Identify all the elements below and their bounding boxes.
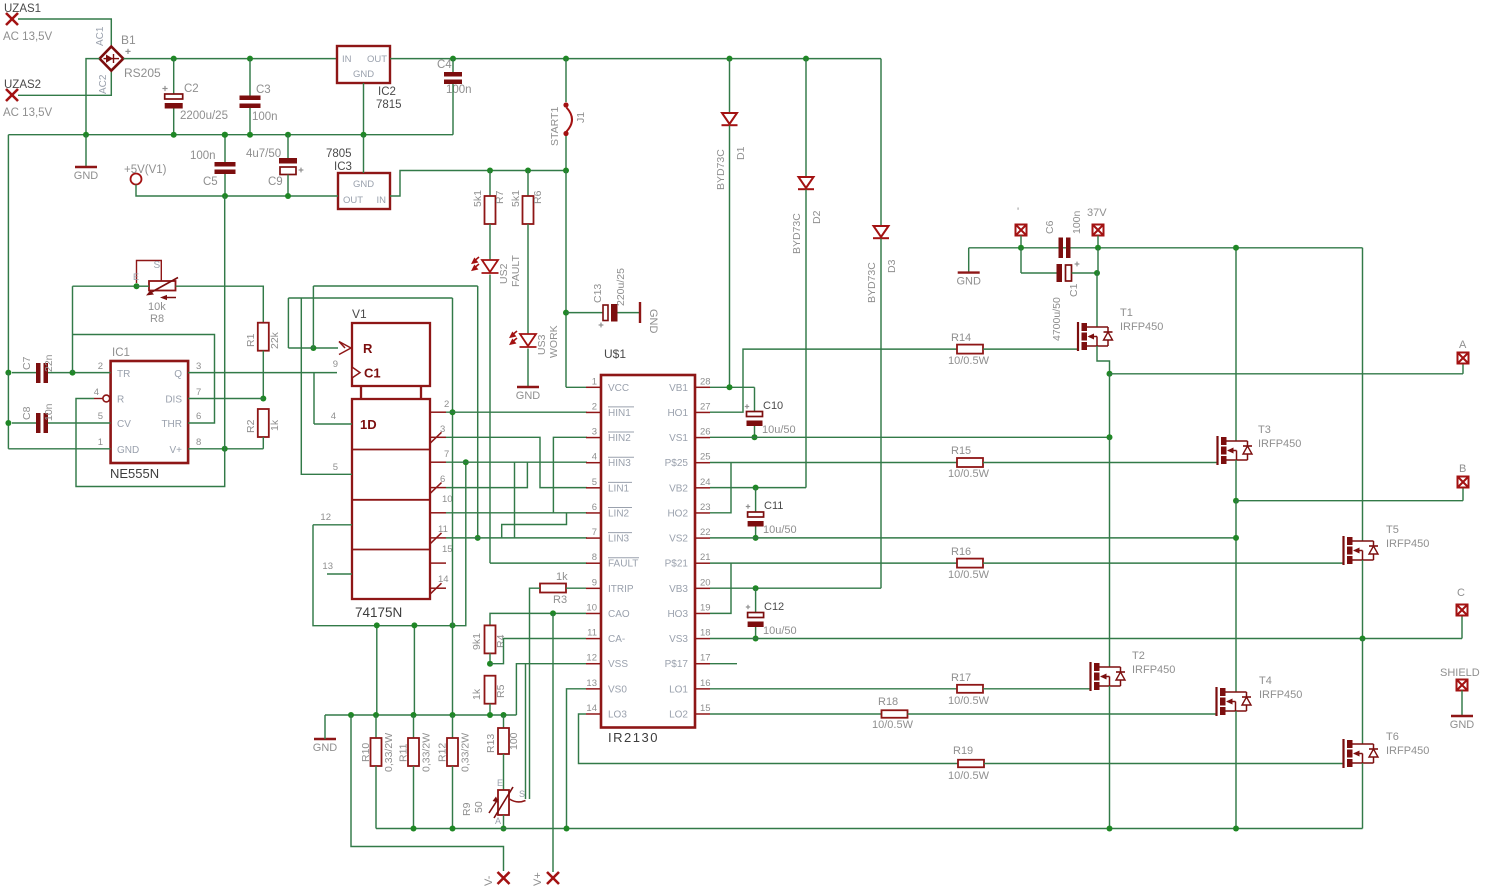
svg-text:HO2: HO2 — [667, 508, 688, 519]
svg-text:AC2: AC2 — [98, 74, 109, 94]
wire P$17 stub — [710, 663, 737, 665]
svg-text:9: 9 — [592, 577, 597, 588]
svg-text:R4: R4 — [495, 634, 507, 648]
junction R12 top — [450, 712, 456, 718]
wire C4 top lead — [452, 59, 454, 72]
wire R13 to R9 — [503, 754, 505, 790]
svg-text:GND: GND — [956, 276, 981, 288]
wire Q2 jog up — [446, 462, 527, 487]
pad C — [1457, 605, 1468, 616]
svg-text:E: E — [133, 272, 139, 282]
svg-text:4: 4 — [592, 452, 597, 463]
svg-text:CV: CV — [117, 419, 131, 430]
svg-text:VB1: VB1 — [669, 383, 688, 394]
svg-text:1k: 1k — [471, 688, 483, 700]
junction C11 on VS2 row — [753, 535, 759, 541]
wire R8 to R1 top — [176, 286, 264, 324]
svg-text:AC 13,5V: AC 13,5V — [3, 107, 53, 119]
svg-text:R8: R8 — [150, 313, 164, 325]
svg-text:8: 8 — [592, 552, 597, 563]
svg-text:B: B — [1459, 463, 1466, 475]
junction loop R11 branch — [411, 622, 417, 628]
wire V- branch — [351, 715, 504, 871]
wire V1 pin 13 stub — [327, 573, 352, 575]
svg-text:3: 3 — [592, 427, 597, 438]
svg-text:T1: T1 — [1120, 307, 1133, 319]
wire T5 source — [1362, 560, 1364, 639]
resistor R19 10/0.5W — [958, 760, 984, 768]
wire R10 bottom lead — [375, 766, 377, 829]
svg-text:4: 4 — [94, 387, 99, 398]
resistor R12 0,33/2W — [447, 738, 458, 766]
svg-text:VB2: VB2 — [669, 483, 688, 494]
svg-text:C7: C7 — [21, 356, 33, 370]
wire HO3 row to R16 — [710, 562, 957, 564]
svg-text:LO3: LO3 — [608, 709, 627, 720]
svg-text:5: 5 — [592, 477, 597, 488]
svg-text:UZAS2: UZAS2 — [4, 79, 41, 91]
junction R13 on rail — [501, 712, 507, 718]
svg-text:P$17: P$17 — [665, 659, 689, 670]
svg-text:9: 9 — [333, 359, 338, 370]
voltage regulator IC3 7805 — [326, 148, 390, 209]
svg-text:R13: R13 — [485, 734, 497, 753]
svg-text:T2: T2 — [1132, 650, 1145, 662]
wire DIS pin to R1/R2 — [188, 398, 263, 400]
capacitor C10 10u/50 — [745, 400, 796, 436]
junction R11 top — [411, 712, 417, 718]
wire C9 top lead — [287, 135, 289, 158]
svg-text:50: 50 — [473, 801, 485, 813]
wire pad C stub — [1461, 616, 1463, 639]
resistor R17 10/0.5W — [957, 685, 983, 693]
wire V1 pin 12 — [313, 524, 352, 526]
wire C1 right lead — [1072, 272, 1098, 274]
junction T4 source on rail — [1233, 826, 1239, 832]
wire THR loop — [73, 335, 215, 424]
resistor R4 9k1 — [485, 625, 496, 653]
svg-text:10u/50: 10u/50 — [763, 524, 797, 536]
pad P1 — [1016, 225, 1027, 236]
wire pin23 jog — [710, 463, 731, 513]
svg-text:BYD73C: BYD73C — [866, 262, 878, 303]
wire C2 top lead — [173, 59, 175, 94]
svg-text:13: 13 — [586, 678, 597, 689]
wire VB3 row — [710, 587, 881, 589]
svg-text:25: 25 — [700, 452, 711, 463]
wire LIN3 row — [446, 537, 587, 539]
wire IC3 GND up to ground rail — [363, 135, 365, 173]
junction phase C — [1360, 636, 1366, 642]
wire R17 to T2 gate — [983, 688, 1091, 690]
svg-text:74175N: 74175N — [355, 605, 402, 620]
pad B — [1458, 477, 1469, 488]
svg-text:R10: R10 — [360, 743, 372, 762]
svg-text:4700u/50: 4700u/50 — [1051, 297, 1063, 341]
svg-text:3: 3 — [196, 361, 201, 372]
wire wiper net vertical — [525, 664, 527, 799]
capacitor C2 2200u/25 — [162, 83, 228, 122]
svg-text:4u7/50: 4u7/50 — [246, 148, 281, 160]
svg-text:IRFP450: IRFP450 — [1132, 664, 1175, 676]
svg-text:1k: 1k — [556, 571, 568, 583]
wire +5V to IC1 reset pin — [76, 399, 225, 487]
resistor R1 22k — [258, 323, 269, 351]
diode D1 BYD73C — [722, 113, 738, 125]
svg-text:17: 17 — [700, 653, 711, 664]
svg-text:AC1: AC1 — [95, 26, 106, 46]
wire R19 to T6 gate — [984, 763, 1344, 765]
wire UZAS2 to bridge AC2 — [18, 71, 111, 96]
svg-text:S: S — [154, 260, 161, 271]
wire VSS to signal ground rail — [516, 664, 586, 715]
ground (logic) — [313, 739, 338, 754]
transistor T3 IRFP450 — [1218, 436, 1253, 465]
svg-text:VS3: VS3 — [669, 634, 688, 645]
svg-text:18: 18 — [700, 628, 711, 639]
wire R4 bottom — [489, 653, 491, 663]
resistor R7 5k1 — [485, 196, 496, 224]
wire C1 left lead — [1021, 272, 1057, 274]
junction C2 bottom — [171, 132, 177, 138]
junction J1 bottom / R6 R7 rail — [563, 168, 569, 174]
svg-text:VS2: VS2 — [669, 534, 688, 545]
wire HO1 to R14 — [710, 349, 957, 412]
wire 15V rail to D2 — [805, 59, 807, 177]
svg-text:1: 1 — [592, 376, 597, 387]
pin bubble IC1 R — [103, 395, 110, 402]
svg-text:5k1: 5k1 — [510, 190, 522, 207]
svg-text:B1: B1 — [121, 33, 136, 47]
svg-text:22k: 22k — [269, 331, 281, 349]
svg-text:9k1: 9k1 — [471, 633, 483, 650]
svg-text:5: 5 — [98, 411, 103, 422]
svg-text:': ' — [1017, 206, 1019, 218]
svg-text:IC1: IC1 — [112, 347, 130, 359]
svg-text:LIN2: LIN2 — [608, 508, 630, 519]
wire UZAS1 to bridge AC1 — [18, 19, 111, 47]
svg-text:10/0.5W: 10/0.5W — [948, 695, 990, 707]
svg-text:1D: 1D — [360, 417, 377, 432]
svg-text:IN: IN — [342, 54, 352, 65]
svg-text:R11: R11 — [398, 743, 410, 762]
svg-text:15: 15 — [700, 703, 711, 714]
svg-text:A: A — [1459, 339, 1467, 351]
resistor R11 0,33/2W — [408, 738, 419, 766]
pin stubs U$1 right — [695, 387, 710, 714]
resistor R15 10/0.5W — [957, 458, 983, 467]
svg-text:GND: GND — [313, 742, 338, 754]
svg-text:7: 7 — [444, 449, 449, 460]
svg-text:ITRIP: ITRIP — [608, 584, 634, 595]
svg-text:5k1: 5k1 — [472, 190, 484, 207]
pad UZAS1 X — [6, 13, 18, 25]
svg-text:C10: C10 — [763, 400, 783, 412]
junction V- branch — [348, 712, 354, 718]
svg-text:P$21: P$21 — [665, 559, 689, 570]
svg-text:IRFP450: IRFP450 — [1386, 745, 1429, 757]
wire phase B to pad — [1236, 500, 1463, 502]
svg-text:C3: C3 — [256, 84, 271, 96]
svg-text:R15: R15 — [951, 445, 971, 457]
wire outer loop top — [313, 285, 477, 287]
ground (SHIELD) — [1450, 716, 1475, 731]
svg-text:R17: R17 — [951, 672, 971, 684]
wire R7 to LED US2 — [489, 224, 491, 260]
svg-text:21: 21 — [700, 552, 711, 563]
svg-text:FAULT: FAULT — [608, 559, 638, 570]
svg-text:10u/50: 10u/50 — [762, 424, 796, 436]
capacitor C5 100n — [190, 150, 236, 188]
capacitor C9 4u7/50 — [246, 148, 303, 188]
svg-text:7: 7 — [196, 387, 201, 398]
wire R row stub — [288, 347, 313, 349]
svg-text:HO3: HO3 — [667, 609, 688, 620]
wire reset stub — [94, 398, 103, 400]
svg-text:FAULT: FAULT — [510, 255, 522, 287]
svg-text:BYD73C: BYD73C — [715, 149, 727, 190]
svg-text:37V: 37V — [1087, 207, 1107, 219]
wire V1 pin 4 — [314, 423, 352, 425]
wire R5 bottom to signal ground — [489, 704, 491, 715]
wire 37V to C1 right — [1097, 248, 1099, 273]
svg-text:C6: C6 — [1044, 220, 1056, 234]
wire SHIELD to ground — [1461, 691, 1463, 717]
svg-text:2: 2 — [592, 401, 597, 412]
svg-text:2: 2 — [98, 361, 103, 372]
wire T1 source jog — [1097, 346, 1110, 374]
pad 37V — [1093, 225, 1104, 236]
junction C11 top — [753, 485, 759, 491]
svg-text:C: C — [1457, 587, 1465, 599]
svg-text:10/0.5W: 10/0.5W — [872, 719, 914, 731]
wire 15V rail to D1 — [729, 59, 731, 113]
wire IC1 Q to 74175 C1 — [188, 372, 337, 374]
svg-text:VSS: VSS — [608, 659, 628, 670]
wire R14 to T1 gate — [983, 348, 1078, 350]
svg-text:220u/25: 220u/25 — [615, 268, 627, 306]
svg-text:6: 6 — [196, 411, 201, 422]
svg-text:CA-: CA- — [608, 634, 625, 645]
svg-text:24: 24 — [700, 477, 711, 488]
svg-text:10k: 10k — [148, 301, 166, 313]
svg-text:8: 8 — [196, 437, 201, 448]
svg-text:0,33/2W: 0,33/2W — [421, 733, 433, 772]
wire left ground vertical — [7, 135, 9, 373]
junction phase A / VS1 / T2 drain — [1107, 434, 1113, 440]
svg-text:LIN3: LIN3 — [608, 534, 630, 545]
wire C12 bottom — [755, 627, 757, 639]
resistor R6 5k1 — [523, 196, 534, 224]
svg-text:100n: 100n — [190, 150, 216, 162]
junction R7 top — [487, 168, 493, 174]
wire LED US3 cathode to ground — [527, 349, 529, 388]
wire rail to GND symbol — [324, 715, 326, 739]
resistor R5 1k — [485, 676, 496, 704]
wire D3 to VB3 — [880, 239, 882, 589]
junction inner loop on HIN1 row — [450, 409, 456, 415]
wire CAO to R4 — [490, 613, 586, 626]
svg-text:1k: 1k — [269, 419, 281, 431]
junction C10 on VS1 row — [752, 434, 758, 440]
wire 37V rail — [969, 247, 1363, 249]
svg-text:14: 14 — [586, 703, 597, 714]
wire R3 to R9 wiper — [530, 588, 541, 799]
svg-text:15: 15 — [442, 544, 453, 555]
wire to C12 — [755, 588, 757, 612]
wire V1 R pin — [313, 347, 338, 349]
junction V+ net — [222, 446, 228, 452]
junction C5 top — [222, 132, 228, 138]
svg-text:R5: R5 — [495, 684, 507, 698]
wire Q1 inv to LIN1 — [446, 437, 587, 487]
svg-text:AC 13,5V: AC 13,5V — [3, 31, 53, 43]
wire C7 to TR pin — [48, 372, 111, 374]
svg-text:VS0: VS0 — [608, 684, 627, 695]
pad V+ — [547, 872, 559, 884]
svg-text:LIN1: LIN1 — [608, 483, 630, 494]
wire top ground rail — [8, 134, 453, 136]
wire R3 to ITRIP — [566, 587, 586, 589]
wire to C11 — [755, 488, 757, 512]
svg-text:VB3: VB3 — [669, 584, 688, 595]
wire T3 source — [1235, 460, 1237, 501]
wire D2 to VB2 — [805, 190, 807, 488]
wire C9 bottom lead — [287, 175, 289, 197]
svg-text:C8: C8 — [21, 406, 33, 420]
junction D2 top — [803, 56, 809, 62]
svg-text:10/0.5W: 10/0.5W — [948, 468, 990, 480]
wire phase A to pad — [1110, 373, 1464, 375]
wire VS2 row to phase B — [710, 537, 1236, 539]
junction R8 E and wiper — [134, 283, 140, 289]
wire outer loop left vertical — [312, 286, 314, 348]
wire to C10 top — [754, 387, 756, 411]
svg-text:T3: T3 — [1258, 424, 1271, 436]
wire phase C down to T6 drain — [1362, 639, 1364, 745]
junction DIS R1 R2 — [260, 396, 266, 402]
svg-text:IRFP450: IRFP450 — [1259, 689, 1302, 701]
svg-text:NE555N: NE555N — [110, 466, 159, 481]
wire R9 bottom to shunt rail — [503, 815, 505, 829]
junction C12 on VS3 row — [753, 636, 759, 642]
wire HIN3 row — [446, 461, 587, 463]
wire D1 to VB1 — [729, 126, 731, 388]
svg-text:11: 11 — [587, 628, 597, 639]
resistor R16 10/0.5W — [957, 559, 983, 568]
svg-text:GND: GND — [516, 390, 541, 402]
svg-text:LO2: LO2 — [669, 709, 688, 720]
wire 15V rail to D3 — [880, 59, 882, 226]
svg-text:VS1: VS1 — [669, 433, 688, 444]
junction pad P1 — [1018, 245, 1024, 251]
wire rail to C1 left — [1020, 248, 1022, 273]
svg-text:12: 12 — [320, 512, 331, 523]
trimmer R9 50 — [461, 778, 526, 826]
svg-text:BYD73C: BYD73C — [791, 213, 803, 254]
ground (power supply) — [74, 167, 99, 182]
wire R11 bottom lead — [413, 766, 415, 829]
wire R16 to T5 gate — [983, 562, 1344, 564]
wire inner loop vertical to rail — [452, 298, 454, 715]
svg-text:R12: R12 — [437, 743, 449, 762]
svg-text:GND: GND — [1450, 719, 1475, 731]
wire to C13 — [566, 312, 603, 314]
capacitor C13 220u/25 — [592, 268, 627, 328]
wire left ground vertical lower — [7, 373, 9, 449]
junction D1 top — [727, 56, 733, 62]
svg-text:6: 6 — [592, 502, 597, 513]
trimmer R8 10k — [133, 260, 178, 325]
svg-text:OUT: OUT — [367, 54, 387, 65]
diode D2 BYD73C — [798, 177, 814, 189]
svg-text:OUT: OUT — [343, 195, 363, 206]
wire VS0 to shunt rail — [567, 689, 587, 829]
svg-text:R7: R7 — [494, 190, 506, 204]
svg-text:R: R — [117, 395, 124, 406]
svg-text:HO1: HO1 — [667, 408, 688, 419]
svg-text:28: 28 — [700, 376, 711, 387]
svg-text:10/0.5W: 10/0.5W — [948, 569, 990, 581]
svg-text:R14: R14 — [951, 332, 971, 344]
svg-text:DIS: DIS — [165, 395, 182, 406]
svg-text:C9: C9 — [268, 176, 283, 188]
wire bridge minus to ground rail — [86, 59, 100, 135]
wire IC2 GND to ground rail — [363, 83, 365, 135]
wire FAULT row to pin 8 — [490, 562, 587, 564]
svg-text:IR2130: IR2130 — [608, 730, 659, 745]
junction C8 left — [5, 420, 11, 426]
wire LIN3 jog — [502, 513, 567, 538]
LED US3 WORK — [520, 334, 537, 347]
wire C13 to ground — [618, 312, 641, 314]
svg-text:7: 7 — [592, 527, 597, 538]
wire R6 top lead — [527, 171, 529, 198]
wire LO2 to R18 — [710, 713, 882, 715]
svg-text:16: 16 — [700, 678, 711, 689]
wire T1 drain — [1096, 273, 1098, 327]
junction C12 top — [753, 585, 759, 591]
capacitor C3 100n — [240, 84, 278, 123]
wire R10 top lead — [375, 715, 377, 738]
resistor R14 10/0.5W — [957, 345, 983, 354]
svg-text:R2: R2 — [245, 419, 257, 433]
wire C8 to CV pin — [48, 422, 111, 424]
junction C3 bottom — [247, 132, 253, 138]
output slashes V1 complementary pins — [430, 432, 442, 594]
wire R11 top lead — [413, 715, 415, 738]
svg-text:C2: C2 — [184, 83, 199, 95]
svg-text:4: 4 — [331, 411, 336, 422]
svg-text:IC3: IC3 — [334, 161, 352, 173]
svg-text:11: 11 — [438, 524, 448, 535]
svg-text:Q: Q — [174, 369, 182, 380]
svg-text:100n: 100n — [1071, 210, 1083, 234]
junction T3 drain on rail — [1233, 245, 1239, 251]
svg-text:HIN2: HIN2 — [608, 433, 631, 444]
ground (C13) — [640, 302, 659, 334]
svg-text:R18: R18 — [878, 696, 898, 708]
svg-text:CAO: CAO — [608, 609, 630, 620]
wire C4 bottom lead — [452, 84, 454, 135]
junction C9 top — [285, 132, 291, 138]
junction R6 top — [525, 168, 531, 174]
pad V- — [498, 872, 510, 884]
svg-text:C1: C1 — [364, 366, 381, 381]
wire pad P1 stub — [1020, 236, 1022, 248]
wire R12 bottom lead — [452, 766, 454, 829]
wire VS3 row / phase C — [710, 638, 1462, 640]
